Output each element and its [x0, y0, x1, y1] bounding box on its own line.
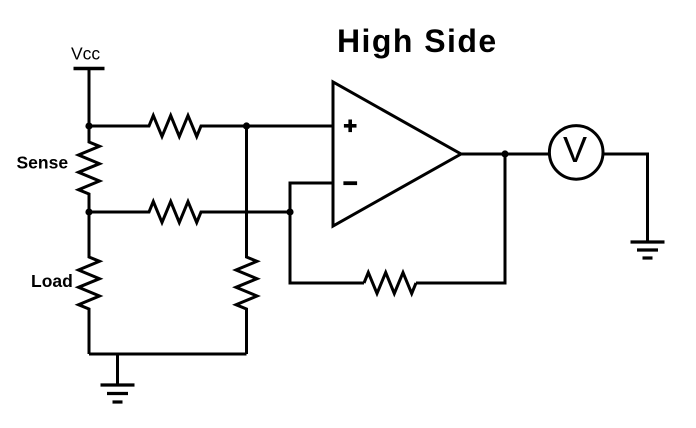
wire op-amp output to voltmeter: [461, 153, 549, 156]
svg-text:High Side: High Side: [337, 23, 498, 59]
voltmeter V1 circle: [549, 126, 603, 180]
node D junction dot (R2 / inverting input / Rf): [286, 208, 293, 215]
svg-text:Vcc: Vcc: [71, 44, 100, 64]
svg-text:Load: Load: [31, 271, 73, 291]
wire node D down to feedback rail: [290, 212, 364, 283]
op-amp - input symbol: [343, 181, 357, 185]
ground (left) stem: [116, 354, 119, 385]
svg-text:Sense: Sense: [17, 153, 69, 173]
op-amp U1 triangle: [333, 82, 461, 226]
resistor R1 (top horizontal) with wire node A to op-amp + input: [89, 116, 333, 137]
wire node D to op-amp inverting input: [290, 183, 333, 212]
node E junction dot (output / feedback): [501, 150, 508, 157]
resistor Load (vertical, x=89, y 212-354): [79, 212, 100, 354]
resistor R2 (second horizontal) wire node B to node D: [89, 202, 290, 223]
node B junction dot (Sense / R2 / Load): [85, 208, 92, 215]
resistor Rf (feedback horizontal): [364, 273, 416, 294]
svg-text:V: V: [563, 129, 587, 170]
wire Vcc bar to node A: [88, 69, 91, 127]
ground (left) bars: [101, 383, 135, 386]
resistor Sense (vertical, x=89, y 126-212): [79, 126, 100, 212]
resistor R3 (middle vertical) with wire from node C to bottom rail: [236, 126, 257, 354]
Vcc supply bar: [74, 67, 105, 70]
wire voltmeter to right ground: [603, 154, 648, 242]
wire feedback rail up to node E: [416, 154, 505, 283]
node C junction dot (R1 / R3 / + input): [243, 122, 250, 129]
node A junction dot (Vcc / R1 / Sense): [85, 122, 92, 129]
op-amp + input symbol: [344, 124, 357, 128]
ground (right) bars: [631, 240, 665, 243]
wire bottom rail (89,354)-(246.5,354): [89, 353, 247, 356]
